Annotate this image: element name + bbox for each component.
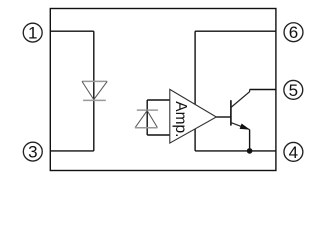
wire amp output to base xyxy=(216,116,231,118)
svg-text:5: 5 xyxy=(289,81,298,100)
internal supply rail xyxy=(194,31,196,151)
pin 1 terminal xyxy=(23,23,42,42)
wire pin3 to LED cathode xyxy=(50,150,94,152)
wire pin4 ground rail xyxy=(195,150,276,152)
wire photodiode anode to amp input xyxy=(147,134,170,136)
pin 3 terminal xyxy=(23,142,42,161)
wire pin1 to LED anode xyxy=(50,30,94,32)
photodiode PD1 xyxy=(135,110,158,128)
svg-text:Amp.: Amp. xyxy=(172,101,189,137)
transistor Q1 xyxy=(231,90,250,130)
wire photodiode cathode to amp input xyxy=(147,99,170,101)
svg-text:6: 6 xyxy=(289,23,298,42)
wire emitter to ground rail xyxy=(249,130,251,151)
pin 5 terminal xyxy=(284,80,303,99)
op-amp A1 xyxy=(170,89,217,143)
wire photodiode vertical axis xyxy=(146,100,148,135)
junction dot emitter-ground xyxy=(247,148,253,154)
pin 6 terminal xyxy=(284,23,303,42)
wire pin6 supply xyxy=(195,30,276,32)
package outline xyxy=(50,9,276,171)
svg-text:3: 3 xyxy=(28,143,37,162)
wire collector to pin5 xyxy=(250,89,276,91)
svg-text:1: 1 xyxy=(28,24,37,43)
pin 4 terminal xyxy=(284,142,303,161)
LED D1 xyxy=(82,81,107,100)
svg-text:4: 4 xyxy=(289,143,298,162)
wire LED branch vertical xyxy=(93,31,95,151)
